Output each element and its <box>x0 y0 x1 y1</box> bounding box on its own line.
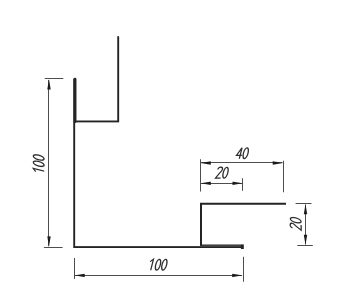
dimension 100 left: label <box>33 154 44 174</box>
dimension 40: label <box>236 148 250 159</box>
profile: left vertical outer + bottom horizontal <box>74 79 243 247</box>
dimension 20: dim line <box>201 183 242 185</box>
dimension 20: label <box>215 167 229 178</box>
dimension 100 bottom: arrow right <box>232 274 242 277</box>
dimension 100 left: dim line <box>48 80 50 246</box>
dimension 100 left: arrow up <box>47 79 50 89</box>
dimension 20: arrow right <box>233 182 243 185</box>
dimension 40: dim line <box>201 162 283 164</box>
profile: left hem (doubled upper-left vertical) <box>73 79 76 121</box>
dimension 20 right: extension ticks <box>296 204 313 246</box>
dimension 100 left: arrow down <box>47 236 50 246</box>
dimension 20 right: arrow up <box>304 204 307 214</box>
dimension 20 middle: extension line right <box>242 178 244 191</box>
dimension 40: arrow right <box>273 161 283 164</box>
dimension 40 top: extension lines <box>201 159 284 192</box>
dimension 20 right: label <box>290 217 301 231</box>
dimension 100 bottom: extension lines <box>75 257 244 282</box>
dimension 20 right: arrow down <box>304 235 307 245</box>
dimension 20: arrow left <box>201 182 211 185</box>
profile: right piece (top horizontal + vertical + lip) <box>201 204 286 246</box>
dimension 40: arrow left <box>201 161 211 164</box>
profile: top hook vertical + horizontal <box>75 37 118 121</box>
dimension 100 bottom: arrow left <box>75 274 85 277</box>
dimension 100 bottom: label <box>148 259 168 270</box>
profile: bottom right end cap <box>241 244 244 249</box>
dimension 100 bottom: dim line <box>75 275 242 277</box>
dimension 20 right: dim line <box>305 205 307 245</box>
dimension 100 left: extension ticks <box>44 79 63 248</box>
